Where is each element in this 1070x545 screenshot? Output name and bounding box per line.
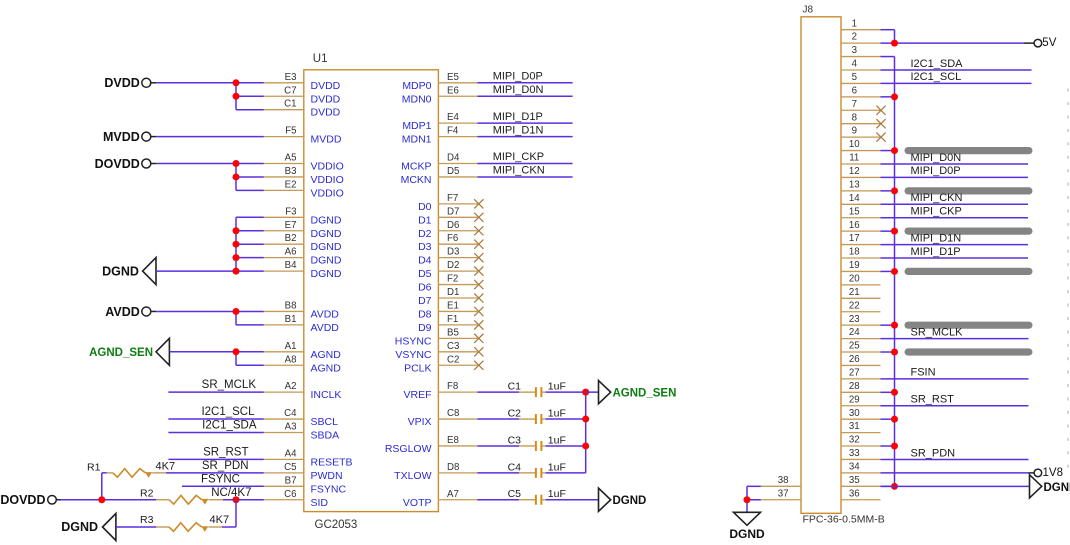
svg-text:E1: E1 bbox=[447, 300, 459, 311]
svg-text:1uF: 1uF bbox=[548, 434, 566, 446]
svg-text:AGND: AGND bbox=[311, 362, 342, 374]
J8 pin 13 bbox=[841, 179, 881, 190]
wire DGND to R3 bbox=[116, 526, 156, 528]
U1 pin D5 (MCKN) bbox=[401, 166, 478, 186]
svg-text:MIPI_D1N: MIPI_D1N bbox=[493, 124, 544, 136]
svg-text:E4: E4 bbox=[447, 112, 459, 123]
svg-text:C8: C8 bbox=[447, 408, 459, 419]
J8 pin 25 bbox=[841, 341, 881, 352]
wire MIPI_D0P (J8 pin 12) bbox=[881, 176, 1029, 178]
svg-text:23: 23 bbox=[849, 314, 860, 325]
svg-text:25: 25 bbox=[849, 341, 860, 352]
no-connect X on pin F2 bbox=[474, 280, 483, 289]
svg-text:MIPI_CKP: MIPI_CKP bbox=[493, 151, 544, 163]
no-connect X on pin D3 bbox=[474, 253, 483, 262]
svg-text:1: 1 bbox=[852, 18, 857, 29]
junction SID/R3 bbox=[233, 496, 240, 503]
svg-text:SR_MCLK: SR_MCLK bbox=[911, 326, 964, 338]
svg-text:20: 20 bbox=[849, 273, 860, 284]
svg-text:J8: J8 bbox=[803, 5, 814, 16]
U1 pin B8 (AVDD) bbox=[264, 300, 340, 320]
U1 pin B2 (DGND) bbox=[264, 233, 342, 253]
svg-text:AVDD: AVDD bbox=[105, 305, 140, 319]
U1 pin E5 (MDP0) bbox=[402, 72, 477, 92]
U1 pin D1 (D7) bbox=[418, 287, 477, 307]
svg-text:AVDD: AVDD bbox=[311, 322, 340, 334]
J8 pin 33 bbox=[841, 448, 881, 459]
wire DGND (J8 pin 35) bbox=[881, 485, 1030, 487]
ground flag DGND (U1 DGND pins) bbox=[102, 258, 156, 285]
svg-text:C6: C6 bbox=[284, 489, 296, 500]
no-connect X on J8 pin 9 bbox=[876, 133, 885, 142]
svg-text:D8: D8 bbox=[447, 462, 459, 473]
svg-text:A5: A5 bbox=[285, 153, 297, 164]
junction GND bus/pin 35 bbox=[891, 483, 898, 490]
svg-text:36: 36 bbox=[849, 488, 860, 499]
svg-text:R2: R2 bbox=[140, 488, 154, 500]
svg-text:F6: F6 bbox=[447, 233, 458, 244]
svg-text:MDN0: MDN0 bbox=[402, 93, 432, 105]
svg-text:D6: D6 bbox=[447, 220, 459, 231]
svg-text:E5: E5 bbox=[447, 72, 459, 83]
wire I2C1_SCL bbox=[168, 418, 263, 420]
wire AVDD net bbox=[156, 311, 263, 324]
svg-text:SBCL: SBCL bbox=[311, 416, 339, 428]
J8 pin 28 bbox=[841, 381, 881, 392]
svg-text:GC2053: GC2053 bbox=[315, 519, 358, 531]
svg-text:DVDD: DVDD bbox=[104, 76, 139, 90]
svg-text:D4: D4 bbox=[418, 255, 432, 267]
wire 5V net (J8 pins 1,2) bbox=[881, 30, 1025, 43]
svg-text:D6: D6 bbox=[418, 282, 432, 294]
svg-text:SR_MCLK: SR_MCLK bbox=[202, 379, 257, 391]
U1 pin C5 (PWDN) bbox=[264, 462, 343, 482]
hidden net bar at J8 pin 13 bbox=[905, 187, 1033, 194]
svg-text:15: 15 bbox=[849, 206, 860, 217]
capacitor C4 bbox=[478, 461, 546, 478]
svg-text:E8: E8 bbox=[447, 435, 459, 446]
U1 pin D4 (MCKP) bbox=[401, 153, 477, 173]
no-connect X on pin F6 bbox=[474, 240, 483, 249]
svg-text:D1: D1 bbox=[447, 287, 459, 298]
junction GND bus/pin 28 bbox=[891, 389, 898, 396]
U1 pin A5 (VDDIO) bbox=[264, 153, 344, 173]
J8 pin 24 bbox=[841, 327, 881, 338]
resistor R1 bbox=[87, 461, 166, 499]
wire FSIN (J8 pin 27) bbox=[881, 378, 1029, 380]
U1 pin F8 (VREF) bbox=[403, 381, 477, 401]
junction AGND_SEN/A1 bbox=[233, 348, 240, 355]
U1 pin D3 (D4) bbox=[418, 247, 477, 267]
wire MIPI_D0N (J8 pin 11) bbox=[881, 163, 1029, 165]
wire SR_RST bbox=[168, 458, 263, 460]
no-connect X on pin E1 bbox=[474, 307, 483, 316]
svg-text:19: 19 bbox=[849, 260, 860, 271]
svg-text:12: 12 bbox=[849, 166, 860, 177]
svg-text:1uF: 1uF bbox=[548, 461, 566, 473]
U1 pin A2 (INCLK) bbox=[264, 381, 342, 401]
junction GND bus/pin 19 bbox=[891, 268, 898, 275]
wire DGND net (U1) bbox=[156, 217, 264, 271]
capacitor C3 bbox=[478, 434, 546, 451]
junction AGND_SEN/C1 bbox=[582, 389, 589, 396]
svg-text:DGND: DGND bbox=[1044, 482, 1070, 494]
svg-text:SR_PDN: SR_PDN bbox=[911, 447, 956, 459]
wire SR_PDN (J8 pin 33) bbox=[881, 458, 1029, 460]
wire C1 output bbox=[546, 391, 586, 393]
J8 pin 30 bbox=[841, 408, 881, 419]
svg-text:33: 33 bbox=[849, 448, 860, 459]
junction GND bus/pin 23 bbox=[891, 322, 898, 329]
svg-text:AVDD: AVDD bbox=[311, 308, 340, 320]
svg-text:I2C1_SDA: I2C1_SDA bbox=[202, 420, 257, 432]
svg-text:9: 9 bbox=[852, 126, 857, 137]
J8 pin 31 bbox=[841, 421, 881, 432]
svg-text:1uF: 1uF bbox=[548, 488, 566, 500]
junction GND bus/pin 10 bbox=[891, 147, 898, 154]
wire C5 output bbox=[546, 499, 599, 501]
svg-text:C4: C4 bbox=[284, 408, 297, 419]
svg-text:DGND: DGND bbox=[61, 520, 98, 534]
svg-text:D0: D0 bbox=[418, 201, 432, 213]
svg-text:PCLK: PCLK bbox=[404, 362, 431, 374]
svg-text:DOVDD: DOVDD bbox=[0, 493, 45, 507]
wire AGND_SEN net (U1) bbox=[169, 352, 263, 365]
wire DOVDD net (VDDIO pins) bbox=[156, 164, 263, 191]
svg-text:1uF: 1uF bbox=[548, 407, 566, 419]
no-connect X on pin C3 bbox=[474, 347, 483, 356]
wire SR_PDN (R1 to pin C5) bbox=[166, 472, 264, 474]
junction DOVDD/B3 bbox=[233, 173, 240, 180]
svg-text:1V8: 1V8 bbox=[1043, 467, 1063, 479]
svg-text:C3: C3 bbox=[508, 434, 522, 446]
ground flag DGND (C5) bbox=[599, 488, 647, 511]
svg-text:MVDD: MVDD bbox=[103, 130, 140, 144]
svg-text:DGND: DGND bbox=[311, 255, 342, 267]
svg-text:FSYNC: FSYNC bbox=[311, 483, 347, 495]
svg-text:VOTP: VOTP bbox=[403, 497, 432, 509]
svg-text:21: 21 bbox=[849, 287, 860, 298]
svg-text:MVDD: MVDD bbox=[311, 134, 342, 146]
ground symbol DGND (J8) bbox=[729, 512, 765, 541]
svg-text:SR_RST: SR_RST bbox=[203, 446, 248, 458]
svg-text:I2C1_SDA: I2C1_SDA bbox=[911, 58, 964, 70]
no-connect X on pin D1 bbox=[474, 293, 483, 302]
svg-text:FSYNC: FSYNC bbox=[201, 473, 240, 485]
svg-text:18: 18 bbox=[849, 247, 860, 258]
svg-text:MIPI_D0P: MIPI_D0P bbox=[911, 165, 961, 177]
svg-text:A2: A2 bbox=[285, 381, 297, 392]
svg-text:7: 7 bbox=[852, 99, 857, 110]
U1 pin D2 (D5) bbox=[418, 260, 477, 280]
U1 pin F7 (D0) bbox=[418, 193, 477, 213]
svg-text:D1: D1 bbox=[418, 214, 432, 226]
svg-text:D2: D2 bbox=[447, 260, 459, 271]
junction AGND_SEN/C2 bbox=[582, 416, 589, 423]
svg-text:SR_RST: SR_RST bbox=[911, 394, 955, 406]
U1 pin A3 (SBDA) bbox=[264, 422, 339, 442]
svg-text:MIPI_D1P: MIPI_D1P bbox=[493, 111, 543, 123]
J8 pin 29 bbox=[841, 394, 881, 405]
J8 pin 1 bbox=[841, 18, 881, 29]
svg-text:DGND: DGND bbox=[311, 214, 342, 226]
J8 pin 12 bbox=[841, 166, 881, 177]
junction GND bus/pin 32 bbox=[891, 443, 898, 450]
no-connect X on pin F7 bbox=[474, 199, 483, 208]
wire MIPI_D1N (J8 pin 17) bbox=[881, 244, 1029, 246]
hidden net bar at J8 pin 10 bbox=[905, 147, 1033, 154]
svg-text:VDDIO: VDDIO bbox=[311, 187, 344, 199]
svg-text:I2C1_SCL: I2C1_SCL bbox=[911, 71, 962, 83]
wire MIPI_D1P (J8 pin 18) bbox=[881, 257, 1029, 259]
no-connect X on pin D7 bbox=[474, 213, 483, 222]
junction DOVDD/A5 bbox=[233, 160, 240, 167]
svg-text:37: 37 bbox=[778, 488, 789, 499]
J8 pin 14 bbox=[841, 193, 881, 204]
svg-text:DVDD: DVDD bbox=[311, 80, 341, 92]
no-connect X on J8 pin 8 bbox=[876, 119, 885, 128]
svg-text:DGND: DGND bbox=[311, 268, 342, 280]
svg-text:D2: D2 bbox=[418, 228, 432, 240]
svg-text:22: 22 bbox=[849, 300, 860, 311]
no-connect X on pin F1 bbox=[474, 320, 483, 329]
svg-text:D8: D8 bbox=[418, 308, 432, 320]
svg-text:MIPI_D1N: MIPI_D1N bbox=[911, 232, 962, 244]
svg-text:32: 32 bbox=[849, 435, 860, 446]
J8 pin 27 bbox=[841, 367, 881, 378]
wire C3 output bbox=[546, 445, 586, 447]
J8 pin 38 bbox=[761, 475, 801, 486]
J8 pin 34 bbox=[841, 461, 881, 472]
svg-text:AGND: AGND bbox=[311, 349, 342, 361]
junction DGND/B4 bbox=[233, 268, 240, 275]
svg-text:FSIN: FSIN bbox=[911, 367, 936, 379]
svg-text:4K7: 4K7 bbox=[156, 460, 176, 472]
svg-text:U1: U1 bbox=[313, 53, 328, 65]
U1 pin D6 (D2) bbox=[418, 220, 477, 240]
svg-text:A6: A6 bbox=[285, 247, 297, 258]
junction AVDD/B8 bbox=[233, 308, 240, 315]
svg-text:F5: F5 bbox=[285, 126, 296, 137]
svg-text:F2: F2 bbox=[447, 274, 458, 285]
junction AGND_SEN/C3 bbox=[582, 442, 589, 449]
J8 pin 3 bbox=[841, 45, 881, 56]
hidden net bar at J8 pin 19 bbox=[905, 268, 1033, 275]
U1 pin B4 (DGND) bbox=[264, 260, 342, 280]
svg-text:B3: B3 bbox=[285, 166, 297, 177]
svg-text:RSGLOW: RSGLOW bbox=[385, 443, 432, 455]
svg-text:A3: A3 bbox=[285, 422, 297, 433]
U1 pin E7 (DGND) bbox=[264, 220, 342, 240]
svg-text:DGND: DGND bbox=[311, 228, 342, 240]
U1 pin D7 (D1) bbox=[418, 206, 477, 226]
port DOVDD bbox=[95, 157, 157, 171]
hidden net bar at J8 pin 23 bbox=[905, 322, 1033, 329]
svg-text:D5: D5 bbox=[447, 166, 459, 177]
svg-text:VDDIO: VDDIO bbox=[311, 161, 344, 173]
svg-text:MIPI_CKP: MIPI_CKP bbox=[911, 206, 962, 218]
svg-text:B7: B7 bbox=[285, 475, 297, 486]
U1 pin C1 (DVDD) bbox=[264, 99, 341, 119]
port 1V8 bbox=[1029, 467, 1063, 479]
U1 pin B1 (AVDD) bbox=[264, 314, 340, 334]
capacitor C5 bbox=[478, 488, 546, 505]
svg-text:F7: F7 bbox=[447, 193, 458, 204]
svg-text:31: 31 bbox=[849, 421, 860, 432]
wire DOVDD to R2 bbox=[61, 499, 157, 501]
U1 pin E8 (RSGLOW) bbox=[385, 435, 478, 455]
J8 pin 11 bbox=[841, 153, 881, 164]
svg-text:MDP1: MDP1 bbox=[402, 120, 431, 132]
U1 pin A6 (DGND) bbox=[264, 247, 342, 267]
svg-text:VPIX: VPIX bbox=[408, 416, 432, 428]
svg-text:HSYNC: HSYNC bbox=[395, 335, 432, 347]
no-connect X on pin C2 bbox=[474, 361, 483, 370]
svg-text:E2: E2 bbox=[285, 179, 297, 190]
port AVDD bbox=[105, 305, 156, 319]
junction DGND/B2 bbox=[233, 241, 240, 248]
svg-text:C7: C7 bbox=[284, 85, 296, 96]
wire I2C1_SDA bbox=[168, 432, 263, 434]
ground flag DGND (R3) bbox=[61, 514, 116, 541]
U1 pin B7 (FSYNC) bbox=[264, 475, 347, 495]
wire C2 output bbox=[546, 418, 586, 420]
svg-text:DGND: DGND bbox=[102, 264, 139, 278]
J8 pin 36 bbox=[841, 488, 881, 499]
svg-text:24: 24 bbox=[849, 327, 860, 338]
svg-text:MIPI_D0P: MIPI_D0P bbox=[493, 71, 543, 83]
wire DVDD net bbox=[156, 83, 263, 110]
U1 pin A1 (AGND) bbox=[264, 341, 341, 361]
U1 pin D8 (TXLOW) bbox=[394, 462, 477, 482]
no-connect X on pin D2 bbox=[474, 267, 483, 276]
svg-text:30: 30 bbox=[849, 408, 860, 419]
U1 pin C4 (SBCL) bbox=[264, 408, 338, 428]
svg-text:B4: B4 bbox=[285, 260, 297, 271]
svg-text:R1: R1 bbox=[87, 461, 101, 473]
svg-text:C2: C2 bbox=[447, 354, 459, 365]
J8 pin 2 bbox=[841, 32, 881, 43]
svg-text:MDP0: MDP0 bbox=[402, 80, 431, 92]
J8 pin 16 bbox=[841, 220, 881, 231]
svg-text:MIPI_D1P: MIPI_D1P bbox=[911, 246, 961, 258]
svg-text:A4: A4 bbox=[285, 448, 297, 459]
resistor R3 bbox=[140, 514, 222, 532]
svg-text:28: 28 bbox=[849, 381, 860, 392]
svg-text:D3: D3 bbox=[447, 247, 459, 258]
decorative clipped marks (right edge) bbox=[1067, 89, 1069, 468]
svg-text:D5: D5 bbox=[418, 268, 432, 280]
U1 pin C3 (VSYNC) bbox=[395, 341, 477, 361]
svg-text:DVDD: DVDD bbox=[311, 107, 341, 119]
U1 pin F2 (D6) bbox=[418, 274, 477, 294]
junction DGND/E7 bbox=[233, 227, 240, 234]
svg-text:27: 27 bbox=[849, 367, 860, 378]
svg-text:D7: D7 bbox=[418, 295, 432, 307]
svg-text:E6: E6 bbox=[447, 85, 459, 96]
wire R2 to pin C6 (SID) bbox=[223, 499, 264, 501]
svg-text:5V: 5V bbox=[1042, 37, 1056, 49]
wire MIPI_D1P (U1 side) bbox=[478, 122, 573, 124]
svg-text:A1: A1 bbox=[285, 341, 297, 352]
J8 pin 5 bbox=[841, 72, 881, 83]
svg-text:C5: C5 bbox=[508, 488, 522, 500]
svg-text:B2: B2 bbox=[285, 233, 297, 244]
J8 pin 10 bbox=[841, 139, 881, 150]
U1 pin F5 (MVDD) bbox=[264, 126, 342, 146]
junction DGND/A6 bbox=[233, 254, 240, 261]
svg-text:29: 29 bbox=[849, 394, 860, 405]
svg-text:17: 17 bbox=[849, 233, 860, 244]
svg-text:F3: F3 bbox=[285, 206, 296, 217]
svg-text:A8: A8 bbox=[285, 354, 297, 365]
svg-text:6: 6 bbox=[852, 85, 857, 96]
wire I2C1_SDA (J8 pin 4) bbox=[881, 69, 1032, 71]
svg-text:DGND: DGND bbox=[613, 495, 647, 507]
wire I2C1_SCL (J8 pin 5) bbox=[881, 82, 1032, 84]
U1 pin A4 (RESETB) bbox=[264, 448, 353, 468]
wire SR_MCLK (J8 pin 24) bbox=[881, 338, 1029, 340]
J8 pin 4 bbox=[841, 59, 881, 70]
wire C4 output bbox=[546, 472, 586, 474]
svg-text:13: 13 bbox=[849, 179, 860, 190]
svg-text:DVDD: DVDD bbox=[311, 93, 341, 105]
J8 pin 17 bbox=[841, 233, 881, 244]
svg-text:R3: R3 bbox=[140, 514, 154, 526]
svg-text:F8: F8 bbox=[447, 381, 458, 392]
U1 pin F1 (D9) bbox=[418, 314, 477, 334]
J8 pin 9 bbox=[841, 126, 881, 137]
svg-text:VDDIO: VDDIO bbox=[311, 174, 344, 186]
port DOVDD (bottom) bbox=[0, 493, 60, 507]
svg-text:MCKN: MCKN bbox=[401, 174, 432, 186]
hidden net bar at J8 pin 25 bbox=[905, 348, 1033, 355]
svg-text:DOVDD: DOVDD bbox=[95, 157, 140, 171]
svg-text:C4: C4 bbox=[508, 461, 522, 473]
svg-text:C1: C1 bbox=[284, 99, 296, 110]
svg-text:MIPI_CKN: MIPI_CKN bbox=[911, 192, 963, 204]
no-connect X on J8 pin 7 bbox=[876, 106, 885, 115]
svg-text:C5: C5 bbox=[284, 462, 296, 473]
J8 pin 19 bbox=[841, 260, 881, 271]
J8 pin 8 bbox=[841, 112, 881, 123]
svg-text:D3: D3 bbox=[418, 241, 432, 253]
wire 1V8 (J8 pin 34) bbox=[881, 472, 1029, 474]
svg-text:B8: B8 bbox=[285, 300, 297, 311]
svg-text:SID: SID bbox=[311, 497, 329, 509]
U1 pin F6 (D3) bbox=[418, 233, 477, 253]
junction DVDD/C7 bbox=[233, 93, 240, 100]
svg-text:35: 35 bbox=[849, 475, 860, 486]
svg-text:MIPI_CKN: MIPI_CKN bbox=[493, 165, 545, 177]
svg-text:8: 8 bbox=[852, 112, 857, 123]
svg-text:E3: E3 bbox=[285, 72, 297, 83]
port MVDD bbox=[103, 130, 156, 144]
svg-text:38: 38 bbox=[778, 475, 789, 486]
svg-text:26: 26 bbox=[849, 354, 860, 365]
junction pin37/ground bbox=[744, 496, 751, 503]
wire AGND_SEN bus (C1-C4) bbox=[585, 392, 587, 473]
wire SR_RST (J8 pin 29) bbox=[881, 405, 1029, 407]
J8 pin 18 bbox=[841, 247, 881, 258]
port 5V bbox=[1024, 37, 1057, 49]
svg-text:MIPI_D0N: MIPI_D0N bbox=[911, 152, 962, 164]
svg-text:C3: C3 bbox=[447, 341, 459, 352]
capacitor C2 bbox=[478, 407, 546, 424]
svg-text:VREF: VREF bbox=[403, 389, 431, 401]
svg-text:2: 2 bbox=[852, 32, 857, 43]
U1 pin F3 (DGND) bbox=[264, 206, 342, 226]
